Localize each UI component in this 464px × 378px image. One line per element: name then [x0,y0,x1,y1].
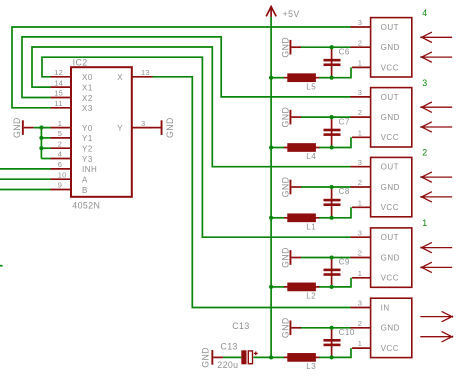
junction Y2 [39,146,43,150]
svg-text:10: 10 [58,170,67,179]
wire X2 to connector 3 OUT [22,37,351,98]
arrow out of connector (lower) [420,332,453,342]
connector X0 box [371,298,412,357]
pin 1 (VCC) stub [352,128,399,142]
svg-text:2: 2 [358,319,362,328]
svg-text:GND: GND [280,177,290,198]
pin 14 (X1) of IC2 [50,78,93,92]
svg-text:2: 2 [358,38,362,47]
wire L1 to connector VCC pin [332,207,351,218]
pin 4 (Y3) of IC2 [50,150,93,164]
ground for C10 [280,317,301,338]
connector X2 box [371,157,412,216]
wire L1 to C8 [319,217,331,219]
junction C7 bottom [330,145,334,149]
pin 2 (GND) stub [351,249,400,263]
svg-text:INH: INH [82,165,97,174]
wire rail to L5 [271,77,284,79]
svg-text:1: 1 [358,198,362,207]
svg-text:2: 2 [358,249,362,258]
junction C7 top [330,115,334,119]
svg-text:13: 13 [141,68,150,77]
pin 2 (GND) stub [351,178,400,192]
svg-text:2: 2 [58,139,62,148]
connector X1 box [371,228,412,287]
connector X4 box [371,18,412,77]
arrow into connector (lower) [421,122,453,132]
pin 3 (IN) stub [351,299,390,313]
pin 13 (X) of IC2 [117,68,152,82]
op-amp U1 : analog multiplexer IC2 4052N box [71,67,132,197]
wire X0 to connector 1 OUT [42,57,351,237]
wire L4 to C7 [319,147,331,149]
svg-text:L4: L4 [306,152,316,161]
pin 3 (OUT) stub [351,228,399,242]
svg-text:1: 1 [358,59,362,68]
svg-text:X0: X0 [82,73,93,82]
svg-text:3: 3 [358,158,362,167]
arrow out of connector (upper) [420,311,453,321]
wire C10 to connector GND pin [332,327,351,329]
wire INH from left edge [0,168,51,170]
wire C6 to connector GND pin [332,46,351,48]
svg-text:Y3: Y3 [82,155,93,164]
svg-text:GND: GND [381,43,400,52]
junction C10 top [330,326,334,330]
ground for C9 [280,247,301,268]
svg-text:12: 12 [54,68,63,77]
wire rail to L3 [271,356,284,358]
svg-text:4: 4 [422,8,427,18]
svg-text:X3: X3 [82,104,93,113]
wire C8 to connector GND pin [332,186,351,188]
pin 1 (VCC) stub [352,269,399,283]
pin 1 (VCC) stub [352,198,399,212]
inductor L2 [283,283,320,301]
svg-text:2: 2 [358,178,362,187]
wire ground to C8 [301,186,332,188]
wire X3 to connector 4 OUT [12,27,351,108]
wire B from left edge [0,189,51,191]
junction C9 top [330,255,334,259]
svg-text:1: 1 [358,269,362,278]
capacitor C6 [324,47,350,77]
pin 3 (OUT) stub [351,18,399,32]
capacitor C8 [324,187,350,218]
ground for C8 [280,177,301,198]
junction rail/L2 [269,285,273,289]
ground for C7 [280,107,301,128]
svg-text:VCC: VCC [381,274,399,283]
pin 2 (GND) stub [351,319,400,333]
svg-text:3: 3 [141,119,145,128]
svg-text:GND: GND [381,183,400,192]
svg-text:VCC: VCC [381,203,399,212]
svg-text:C7: C7 [339,117,350,126]
svg-text:4052N: 4052N [72,200,100,210]
wire ground to C6 [301,46,332,48]
wire A from left edge [0,178,51,180]
junction rail/L3 [269,355,273,359]
svg-text:GND: GND [381,113,400,122]
pin 15 (X2) of IC2 [50,89,93,103]
svg-text:X: X [117,73,123,82]
svg-text:GND: GND [280,317,290,338]
pin 1 (Y0) of IC2 [50,119,93,133]
wire L2 to C9 [319,286,331,288]
wire X output to IN connector [153,77,352,308]
junction C10 bottom [330,355,334,359]
svg-text:L3: L3 [306,362,316,371]
wire rail to L4 [271,147,284,149]
+5V supply symbol [266,7,300,20]
junction C8 top [330,185,334,189]
junction C6 top [330,45,334,49]
pin 9 (B) of IC2 [50,181,88,195]
svg-text:C13: C13 [232,321,249,331]
wire L5 to C6 [319,77,331,79]
pin 2 (Y2) of IC2 [50,139,93,153]
svg-text:5: 5 [58,129,62,138]
wire ground to C10 [301,327,332,329]
svg-text:C6: C6 [339,47,350,56]
svg-text:Y0: Y0 [82,124,93,133]
svg-text:Y1: Y1 [82,134,93,143]
pin 1 (VCC) stub [352,339,399,353]
ground at IC Y pins [12,117,34,138]
junction C9 bottom [330,285,334,289]
svg-text:1: 1 [358,128,362,137]
junction rail/L1 [269,216,273,220]
inductor L4 [283,143,320,161]
svg-text:X2: X2 [82,94,93,103]
pin 2 (GND) stub [351,38,400,52]
ground for C6 [280,37,301,58]
svg-text:L2: L2 [306,292,316,301]
junction Y0 [39,126,43,130]
arrow into connector (upper) [421,32,453,42]
wire X1 to connector 2 OUT [32,47,351,167]
svg-text:14: 14 [54,78,63,87]
svg-text:GND: GND [280,107,290,128]
svg-text:2: 2 [358,108,362,117]
svg-text:C9: C9 [339,258,350,267]
junction C6 bottom [330,76,334,80]
pin 12 (X0) of IC2 [50,68,93,82]
wire L4 to connector VCC pin [332,137,351,147]
wire Y bus vertical [40,128,42,159]
wire Y1 branch [41,137,50,139]
svg-text:2: 2 [422,148,427,158]
svg-text:OUT: OUT [381,233,399,242]
svg-text:GND: GND [280,247,290,268]
ground for C13 [201,347,223,368]
wire Y0 net to ground [34,127,51,129]
capacitor C10 [324,328,355,358]
arrow into connector (lower) [421,192,453,202]
arrow into connector (upper) [421,172,453,182]
svg-text:9: 9 [58,181,62,190]
wire Y3 branch [41,158,50,160]
svg-text:3: 3 [358,299,362,308]
svg-text:3: 3 [358,228,362,237]
wire rail to L1 [271,217,284,219]
svg-text:VCC: VCC [381,63,399,72]
arrow into connector (lower) [421,52,453,62]
svg-text:IC2: IC2 [73,58,88,68]
svg-text:OUT: OUT [381,163,399,172]
junction C8 bottom [330,216,334,220]
svg-text:IN: IN [381,303,390,312]
pin 3 (OUT) stub [351,88,399,102]
svg-text:C13: C13 [221,341,238,351]
pin 5 (Y1) of IC2 [50,129,93,143]
wire stub at left edge [0,265,3,267]
svg-text:GND: GND [165,117,175,138]
svg-text:X1: X1 [82,83,93,92]
svg-text:11: 11 [54,99,62,108]
svg-text:OUT: OUT [381,23,399,32]
svg-text:Y: Y [117,124,123,133]
wire ground to C9 [301,257,332,259]
svg-text:C8: C8 [339,187,350,196]
svg-text:VCC: VCC [381,133,399,142]
svg-text:220u: 220u [217,360,238,370]
pin 2 (GND) stub [351,108,400,122]
svg-text:3: 3 [358,18,362,27]
svg-text:L1: L1 [306,222,316,231]
svg-text:Y2: Y2 [82,145,93,154]
arrow into connector (upper) [421,102,453,112]
wire L2 to connector VCC pin [332,278,351,287]
pin 10 (A) of IC2 [50,170,88,184]
svg-text:VCC: VCC [381,344,399,353]
junction rail/L5 [269,76,273,80]
wire C13 to rail [253,356,271,358]
svg-text:+5V: +5V [283,9,300,19]
junction Y1 [39,136,43,140]
svg-text:3: 3 [422,78,427,88]
junction rail/L4 [269,145,273,149]
svg-text:GND: GND [280,37,290,58]
svg-text:GND: GND [201,347,211,368]
svg-text:GND: GND [12,117,22,138]
svg-text:1: 1 [422,218,427,228]
wire C7 to connector GND pin [332,116,351,118]
inductor L1 [283,213,320,231]
wire +5V rail vertical [270,17,272,358]
capacitor C13 (polarized 220u) [217,341,257,370]
svg-text:OUT: OUT [381,93,399,102]
wire rail to L2 [271,286,284,288]
svg-text:15: 15 [54,89,63,98]
inductor L3 [283,353,320,371]
svg-text:1: 1 [58,119,62,128]
capacitor C9 [324,258,350,287]
pin 3 (Y) of IC2 [117,119,152,133]
capacitor C7 [324,117,350,147]
wire ground to C7 [301,116,332,118]
pin 3 (OUT) stub [351,158,399,172]
svg-text:C10: C10 [339,328,355,337]
pin 6 (INH) of IC2 [50,160,97,174]
svg-text:1: 1 [358,339,362,348]
svg-text:GND: GND [381,324,400,333]
wire L5 to connector VCC pin [332,67,351,77]
arrow into connector (lower) [421,262,453,272]
inductor L5 [283,73,320,91]
ground at IC pin Y [153,117,175,138]
svg-text:A: A [82,176,88,185]
svg-text:B: B [82,186,88,195]
pin 11 (X3) of IC2 [50,99,93,113]
svg-text:GND: GND [381,253,400,262]
connector X3 box [371,88,412,147]
wire Y2 branch [41,147,50,149]
wire ground to C13 [223,356,241,358]
svg-text:3: 3 [358,88,362,97]
wire L3 to connector VCC pin [332,348,351,357]
svg-text:6: 6 [58,160,62,169]
arrow into connector (upper) [421,242,453,252]
svg-text:4: 4 [58,150,62,159]
svg-text:L5: L5 [306,82,316,91]
pin 1 (VCC) stub [352,59,399,73]
wire L3 to C10 [319,356,331,358]
wire C9 to connector GND pin [332,257,351,259]
